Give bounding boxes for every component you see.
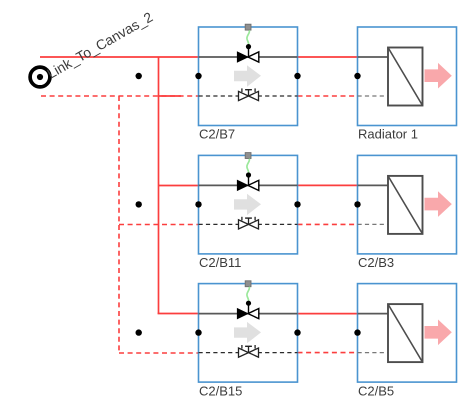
svg-text:Link_To_Canvas_2: Link_To_Canvas_2 xyxy=(44,8,155,81)
svg-text:C2/B5: C2/B5 xyxy=(358,383,394,398)
svg-text:C2/B15: C2/B15 xyxy=(199,383,242,398)
svg-text:C2/B3: C2/B3 xyxy=(358,255,394,270)
svg-text:C2/B11: C2/B11 xyxy=(199,255,241,270)
svg-text:C2/B7: C2/B7 xyxy=(199,127,235,142)
svg-text:Radiator 1: Radiator 1 xyxy=(358,127,418,142)
